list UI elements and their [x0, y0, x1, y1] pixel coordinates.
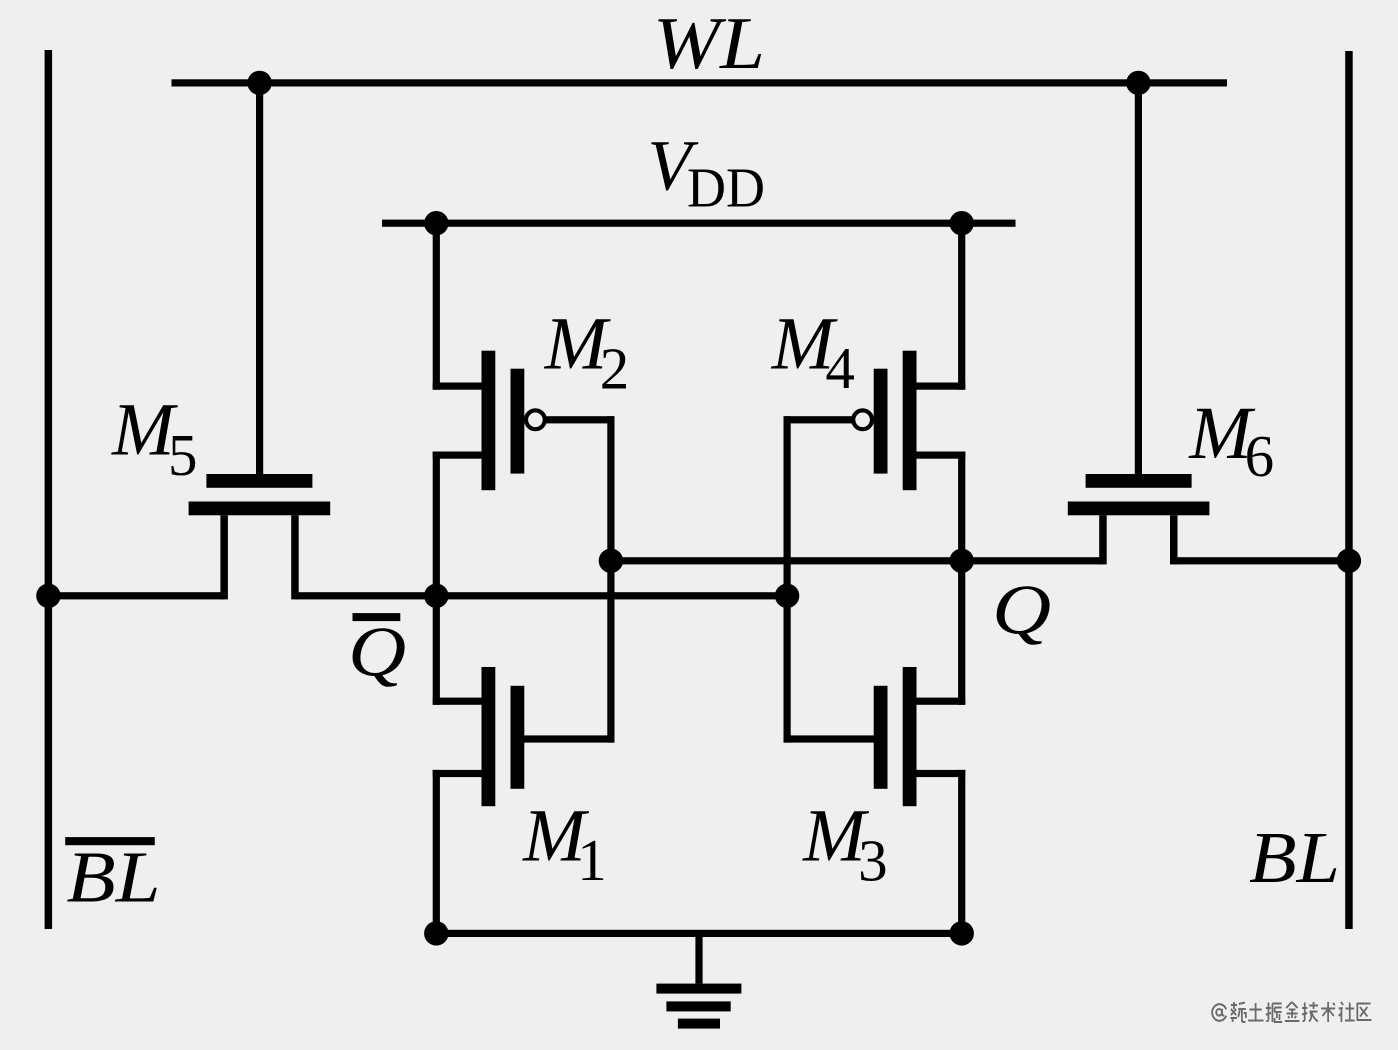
node Q junction dot (inverter drains): [950, 549, 974, 573]
svg-text:2: 2: [600, 335, 630, 401]
node WL junction dot right (M6 gate tap): [1126, 71, 1150, 95]
wire Q-bar net horizontal (M5 right leg to M4 gate column): [295, 592, 791, 599]
ground symbol: [656, 933, 741, 1028]
transistor M5 (NMOS access, left): [189, 83, 331, 599]
wire Q net horizontal (M6 right leg to BL): [1174, 557, 1353, 564]
svg-text:BL: BL: [67, 837, 161, 918]
svg-text:3: 3: [858, 827, 888, 893]
svg-text:4: 4: [825, 335, 855, 401]
transistor M6 (NMOS access, right): [1068, 83, 1210, 564]
svg-text:Q: Q: [348, 614, 406, 692]
svg-text:DD: DD: [687, 158, 765, 220]
node Q-bar junction dot (M4 gate tap): [775, 584, 799, 608]
label BL-bar overline: [65, 837, 155, 845]
label Q-bar overline: [353, 613, 401, 621]
wire VDD rail: [382, 220, 1016, 227]
wire Q-bar net horizontal (BL-bar to M5 left leg): [45, 592, 225, 599]
wire WL word line rail: [172, 79, 1228, 86]
transistor M1 (NMOS pull-down, left): [433, 596, 615, 934]
watermark @xitu juejin community: [1212, 1002, 1371, 1022]
wire Q net vertical (M2 gate / M1 gate cross-coupling): [607, 416, 614, 742]
node WL junction dot left (M5 gate tap): [247, 71, 271, 95]
wire BL bit line (right vertical): [1345, 51, 1353, 929]
svg-text:BL: BL: [1249, 817, 1340, 898]
node ground rail dot left: [424, 921, 448, 945]
wire Q net horizontal (M2 gate column to M6 left leg): [607, 557, 1103, 564]
node Q-bar junction dot (inverter drains): [424, 584, 448, 608]
svg-text:Q: Q: [992, 572, 1051, 650]
wire Q-bar net vertical (M4 gate / M3 gate cross-coupling): [784, 416, 791, 742]
transistor M3 (NMOS pull-down, right): [784, 561, 966, 934]
node Q junction dot (M2 gate tap): [599, 549, 623, 573]
wire ground rail: [433, 930, 966, 937]
node ground rail dot right: [950, 921, 974, 945]
node BL junction dot: [1337, 549, 1361, 573]
svg-text:6: 6: [1245, 423, 1275, 489]
svg-text:WL: WL: [653, 3, 765, 85]
svg-text:5: 5: [168, 422, 198, 488]
transistor M4 (PMOS pull-up, right): [784, 223, 966, 561]
node BL-bar junction dot: [36, 584, 60, 608]
node VDD junction dot left: [424, 211, 448, 235]
node VDD junction dot right: [950, 211, 974, 235]
transistor M2 (PMOS pull-up, left): [433, 223, 615, 596]
svg-text:1: 1: [577, 827, 607, 893]
wire BL-bar bit line (left vertical): [45, 50, 53, 929]
